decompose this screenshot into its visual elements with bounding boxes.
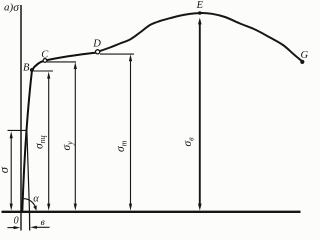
svg-text:α: α [33,194,39,205]
residual strain dimension: left arrow [7,226,20,229]
curve: knee B-C [32,61,45,71]
tick at D level [100,53,134,55]
svg-text:E: E [196,0,204,11]
svg-text:G: G [301,50,309,61]
point E [198,11,202,15]
point G [300,60,304,64]
dimension sigma_t (yield) [129,54,132,210]
y-axis extension tick below baseline [20,213,22,231]
curve: yield region C-D [45,53,96,61]
residual strain dimension: right arrow [30,226,49,229]
dimension sigma [10,131,13,210]
curve: necking E-G [200,13,302,62]
svg-text:а): а) [4,1,14,13]
y-axis [20,5,22,213]
tick at sigma level [8,129,27,131]
svg-text:D: D [92,38,101,49]
dimension sigma_y (elastic limit) [74,62,77,211]
dimension sigma_v (ultimate strength, bold) [198,18,202,211]
unloading line tick below baseline [29,212,31,231]
tick at B level [34,70,53,72]
angle alpha arrowhead [33,205,37,210]
svg-text:σ: σ [0,166,11,173]
svg-text:C: C [41,49,49,60]
angle alpha arc [24,199,36,207]
curve: hardening D-E [98,13,200,52]
tick at C level [47,61,76,63]
point C [43,59,47,63]
unloading line [27,131,30,212]
point D [96,50,100,54]
svg-text:0: 0 [14,216,19,227]
curve: elastic segment O-B [22,70,32,211]
dimension sigma_pts (proportional limit) [47,72,50,211]
x-axis baseline [2,211,301,213]
point B [30,68,34,72]
svg-text:B: B [23,62,30,73]
svg-text:в: в [41,218,45,228]
